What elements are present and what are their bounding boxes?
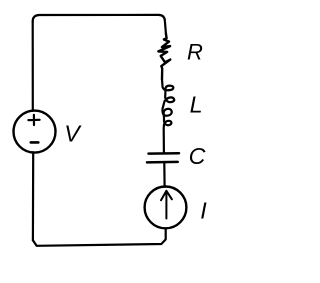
svg-text:C: C [189, 143, 206, 169]
inductor L [162, 80, 174, 153]
current source I [145, 187, 187, 229]
minus terminal [31, 141, 39, 144]
wire bottom [33, 229, 166, 246]
wire capacitor to current source [163, 163, 166, 187]
svg-text:V: V [64, 121, 82, 147]
wire left lower [32, 152, 34, 240]
arrow of current source [161, 191, 172, 219]
svg-text:I: I [200, 197, 207, 223]
plus terminal [28, 115, 39, 125]
svg-text:R: R [187, 39, 203, 64]
wire top [33, 15, 166, 34]
svg-text:L: L [190, 92, 203, 118]
wire left upper [32, 22, 34, 111]
voltage source V [14, 111, 56, 153]
resistor R [158, 33, 170, 79]
capacitor C [149, 152, 180, 155]
